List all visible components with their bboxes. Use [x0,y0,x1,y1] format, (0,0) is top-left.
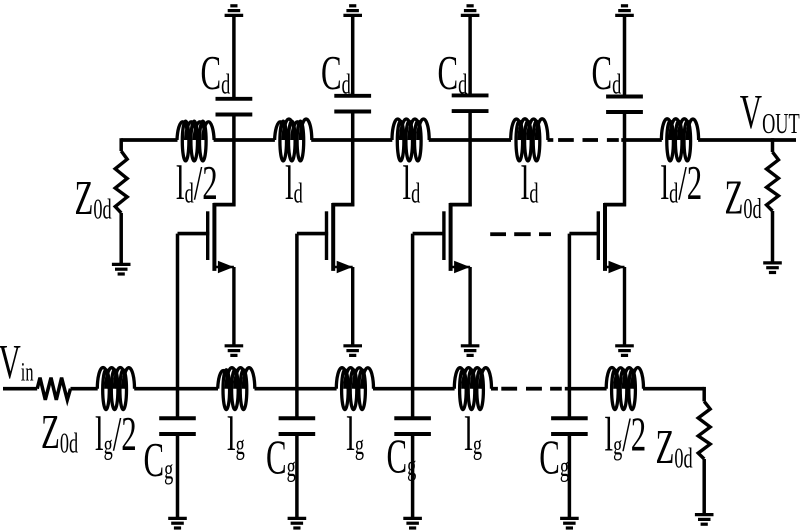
transistor Q3 channel bar [449,203,453,271]
wire drain stem 1 (Cd1 to drain lead) [232,116,236,206]
wire source 4 to ground [623,267,626,346]
wire drain line seg C (node 3) [429,138,511,142]
wire gate line seg in2 [71,387,98,391]
wire drain line left segment [121,138,177,142]
transistor Q4 source lead with arrow [605,266,625,269]
wire left Z0d to ground [119,213,123,264]
wire Cg3 lower stem [411,436,415,519]
inductor Ld (drain, stage 1-2) [275,119,312,161]
transistor Q4 gate bar [597,211,600,260]
ground (top, VDD bypass 4, inverted) [615,14,634,17]
transistor Q4 channel bar [603,203,607,271]
transistor Q1 channel bar [212,203,216,271]
wire drain line seg A (node 1) [214,138,275,142]
ground (Cg1) [168,517,187,520]
capacitor Cd4 [606,95,643,99]
capacitor Cg4 [551,416,588,420]
ground (source 3) [461,344,480,347]
wire drain stem 4 (Cd4 to drain lead) [623,114,627,207]
ground (Cg3) [403,517,422,520]
wire source 1 to ground [232,267,235,346]
wire right Z0d to ground [771,211,775,263]
capacitor Cg1 [159,416,196,420]
ground (drain left) [112,263,131,266]
wire drain line seg B (node 2) [311,138,392,142]
inductor Ld (drain, stage 3-4) [511,119,548,161]
wire gate line seg A (node 1) [134,387,218,391]
wire Cg1 lower stem [176,436,180,519]
inductor Lg/2 (gate, stage 4-term) [606,368,643,410]
wire left Z0d drop [119,138,123,151]
wire drain line stub before dashes [548,138,554,142]
ground (top, VDD bypass 2, inverted) [343,14,362,17]
wire gate stem 4 [568,234,572,417]
resistor Z0d (gate right) [698,401,710,459]
capacitor Cd2 [334,94,371,98]
svg-text:lg/2: lg/2 [95,407,137,461]
wire gate stem 3 [411,234,415,417]
inductor Lg (gate, stage 3-4) [454,368,491,410]
inductor Ld/2 (drain, stage 1) [177,121,214,161]
inductor Ld (drain, stage 2-3) [392,119,429,161]
wire gate Z0d to ground [702,459,706,515]
wire Cd1 upper stem [232,17,236,98]
wire source 3 to ground [468,267,471,346]
wire gate line dashed continuation [501,387,517,391]
capacitor Cg2 [279,416,316,420]
wire Cd2 upper stem [351,17,355,95]
transistor Q4 gate lead [569,232,600,236]
transistor Q2 gate bar [325,211,328,260]
wire gate line input segment [3,387,37,391]
ground (Cg2) [288,517,307,520]
wire Cg4 lower stem [568,436,572,519]
transistor Q4 drain lead [604,203,626,207]
resistor Z0d (input, series) [37,378,70,400]
transistor Q1 gate lead [178,232,210,236]
svg-text:ld/2: ld/2 [176,156,218,210]
inductor Lg (gate, stage 2-3) [336,368,373,410]
transistor Q2 drain lead [332,203,354,207]
transistor Q2 gate lead [297,232,328,236]
inductor Ld/2 (drain, stage 4-out) [661,119,698,161]
ground (gate right) [695,513,714,516]
wire gate line termination segment [643,387,704,391]
wire drain stem 3 (Cd3 to drain lead) [468,113,472,207]
resistor Z0d (drain left) [115,151,127,213]
wire dashed continuation (omitted stages) [490,232,506,236]
wire drain line seg D (node 4) [621,138,662,142]
transistor Q1 drain lead [213,203,235,207]
transistor Q3 drain lead [450,203,472,207]
wire gate line stub before dashes [491,387,498,391]
wire gate Z0d drop [702,387,706,402]
transistor Q1 source lead with arrow [214,266,234,269]
ground (source 2) [343,344,362,347]
transistor Q2 source lead with arrow [333,266,353,269]
wire right Z0d drop [771,138,775,152]
wire source 2 to ground [351,267,354,346]
inductor Lg (gate, stage 1-2) [218,368,255,410]
ground (drain right) [763,261,782,264]
ground (source 1) [225,344,244,347]
capacitor Cg3 [394,416,431,420]
wire gate line seg C (node 3) [373,387,455,391]
wire Cg2 lower stem [295,436,299,519]
wire drain line dashed continuation [558,138,574,142]
wire gate stem 2 [295,234,299,417]
transistor Q3 gate bar [442,211,445,260]
ground (Cg4) [560,517,579,520]
wire Cd3 upper stem [468,17,472,94]
wire drain line output segment [698,138,796,142]
resistor Z0d (drain right) [767,152,779,211]
ground (top, VDD bypass 3, inverted) [461,14,480,17]
inductor Lg/2 (gate, stage 1) [97,368,134,410]
ground (source 4) [615,344,634,347]
transistor Q2 channel bar [331,203,335,271]
transistor Q3 gate lead [413,232,446,236]
capacitor Cd1 [216,97,253,101]
transistor Q3 source lead with arrow [451,266,471,269]
wire gate line seg D (node 4) [565,387,607,391]
capacitor Cd3 [452,93,489,97]
wire drain stem 2 (Cd2 to drain lead) [351,113,355,206]
svg-text:ld/2: ld/2 [661,156,703,210]
svg-text:lg/2: lg/2 [605,407,647,461]
transistor Q1 gate bar [206,211,209,260]
wire gate line seg B (node 2) [255,387,337,391]
wire gate stem 1 [176,234,180,417]
wire Cd4 upper stem [623,17,627,95]
ground (top, VDD bypass 1, inverted) [225,14,244,17]
